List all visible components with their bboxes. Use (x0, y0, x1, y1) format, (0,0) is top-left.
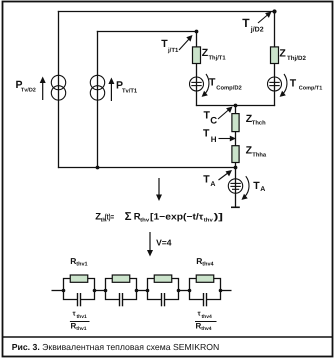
svg-text:V=4: V=4 (156, 237, 172, 247)
source T-Comp/T1 (268, 77, 282, 91)
capacitor C1 (78, 293, 81, 306)
arc arrow T-Comp/T1 (280, 74, 287, 97)
section 3 loop wires (148, 279, 179, 300)
node S1 left (62, 289, 66, 293)
svg-text:T: T (253, 180, 260, 192)
svg-text:C: C (210, 116, 217, 127)
resistor R-thv4 (196, 275, 214, 282)
wire outer top (58, 11, 275, 13)
source TA (228, 179, 242, 193)
label TH with arrow (219, 136, 237, 142)
wire right stub (221, 290, 232, 292)
svg-text:Tv/T1: Tv/T1 (122, 87, 138, 94)
svg-text:thv1: thv1 (77, 314, 88, 320)
svg-text:Рис. 3. Эквивалентная тепловая: Рис. 3. Эквивалентная тепловая схема SEM… (12, 342, 220, 352)
wire middle column (235, 106, 237, 208)
label TA with arrow (219, 170, 233, 180)
svg-text:H: H (211, 135, 217, 144)
node Tj/D2 (272, 9, 276, 13)
node S1 right (93, 289, 97, 293)
svg-text:Z: Z (279, 48, 286, 60)
current source P-Tv/D2 (51, 75, 65, 100)
svg-text:Thj/T1: Thj/T1 (209, 54, 227, 61)
section 4 loop wires (190, 279, 221, 300)
svg-text:thv1: thv1 (76, 326, 87, 332)
wire left stub (52, 290, 64, 292)
arrow P-Tv/T1 (108, 78, 114, 102)
svg-text:T: T (242, 16, 250, 30)
caption separator line (2, 336, 332, 338)
svg-text:Σ: Σ (125, 211, 132, 223)
wire inner branch vertical (97, 31, 99, 168)
svg-text:T: T (203, 174, 210, 186)
arc arrow TA (242, 176, 250, 200)
wire bus (196, 105, 275, 107)
svg-text:A: A (260, 186, 265, 193)
svg-text:(t)=: (t)= (105, 213, 115, 222)
resistor R-thv1 (70, 275, 88, 282)
svg-text:Thha: Thha (252, 152, 267, 159)
label Tj/T1 with arrow (179, 35, 193, 50)
svg-text:j/T1: j/T1 (167, 47, 179, 54)
resistor R-thv2 (112, 275, 130, 282)
wire left branch vertical (58, 11, 60, 168)
arrow P-Tv/D2 (40, 77, 46, 101)
node S3 left (146, 289, 150, 293)
formula Zth(t) (95, 211, 223, 224)
node Tj/T1 (195, 30, 199, 34)
svg-text:T: T (203, 128, 210, 140)
node S2 left (104, 289, 108, 293)
node S4 right (219, 289, 223, 293)
wire bottom (58, 167, 236, 169)
svg-text:thv4: thv4 (202, 314, 213, 320)
wire s3-s5 (179, 290, 190, 292)
svg-text:A: A (210, 181, 215, 188)
terminal bar (231, 206, 240, 208)
svg-text:thv: thv (204, 217, 213, 223)
node S2 right (135, 289, 139, 293)
resistor Z-thch (232, 114, 239, 132)
svg-text:)]: )] (214, 212, 223, 222)
svg-text:thv4: thv4 (202, 261, 214, 267)
source T-Comp/D2 (190, 77, 204, 91)
wire inner top (97, 31, 197, 33)
svg-text:thv4: thv4 (201, 326, 212, 332)
svg-text:[1−exp(−t/τ: [1−exp(−t/τ (150, 212, 203, 222)
capacitor C3 (162, 293, 165, 306)
label Tj/D2 with arrow (258, 12, 272, 24)
svg-text:thv1: thv1 (76, 261, 87, 267)
svg-text:Comp/D2: Comp/D2 (216, 84, 241, 91)
resistor R-thv3 (154, 275, 172, 282)
wire Z-T1 branch vertical (196, 31, 198, 106)
wire Z-D2 branch vertical (274, 11, 276, 106)
node S3 right (177, 289, 181, 293)
resistor Z-thj/D2 (271, 47, 279, 64)
svg-text:Comp/T1: Comp/T1 (299, 85, 323, 91)
junction dot inner bottom (96, 166, 100, 170)
svg-text:Tv/D2: Tv/D2 (21, 87, 36, 93)
arrow down to formula (156, 178, 162, 201)
svg-text:Thj/D2: Thj/D2 (287, 55, 306, 62)
section 1 loop wires (64, 279, 95, 300)
wire s2-s4 (137, 290, 148, 292)
node TA (234, 166, 238, 170)
capacitor C4 (204, 293, 207, 306)
current source P-Tv/T1 (90, 75, 104, 100)
section 2 loop wires (106, 279, 137, 300)
resistor Z-thj/T1 (193, 47, 201, 64)
node TC junction (234, 104, 238, 108)
svg-text:j/D2: j/D2 (250, 25, 264, 33)
arrow down to ladder (147, 232, 153, 257)
node S4 left (188, 289, 192, 293)
svg-text:Thch: Thch (252, 120, 266, 127)
svg-text:T: T (290, 77, 297, 89)
label TC with arrow (218, 107, 233, 120)
capacitor C2 (120, 293, 123, 306)
arc arrow T-Comp/D2 (202, 74, 209, 97)
wire s1-s3 (95, 290, 106, 292)
svg-text:T: T (209, 77, 216, 89)
resistor Z-thha (232, 146, 239, 163)
svg-text:thv: thv (140, 217, 149, 223)
